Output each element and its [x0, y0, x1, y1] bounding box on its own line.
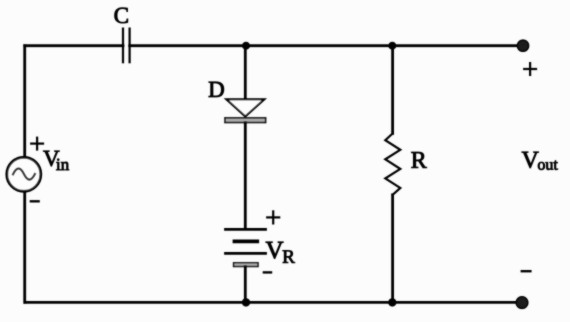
- capacitor C plates: [123, 29, 130, 63]
- label - polarity of output: [522, 270, 531, 272]
- output terminal positive: [517, 40, 528, 51]
- wire left branch through source: [23, 46, 26, 303]
- junction node bottom of diode branch: [242, 298, 250, 306]
- wire battery to bottom rail: [244, 267, 247, 303]
- battery VR plate short thick: [235, 239, 258, 243]
- label D of diode: [209, 82, 224, 97]
- junction node top of diode branch: [242, 42, 250, 50]
- battery VR plate long top: [226, 228, 266, 231]
- label - polarity of Vin: [31, 200, 39, 202]
- junction node bottom of resistor branch: [388, 298, 396, 306]
- label C of capacitor: [115, 8, 128, 23]
- AC source Vin: [7, 157, 41, 191]
- battery VR plate short bottom bar: [234, 263, 258, 267]
- wire diode to battery: [244, 123, 247, 229]
- junction node top of resistor branch: [388, 42, 396, 50]
- diode D anode triangle: [227, 99, 265, 116]
- wire diode branch upper: [244, 46, 247, 99]
- wire bottom rail from Vin to output terminal: [25, 301, 522, 304]
- resistor R zigzag: [385, 134, 400, 195]
- label VR of battery: [266, 242, 295, 263]
- label - polarity of battery VR: [264, 271, 271, 273]
- wire resistor branch lower: [391, 195, 394, 303]
- wire resistor branch upper: [391, 46, 394, 134]
- diode D cathode bar: [225, 118, 266, 123]
- label + polarity of output: [524, 63, 536, 75]
- label Vin of source: [43, 151, 69, 170]
- wire top rail from capacitor to output terminal: [130, 44, 523, 47]
- output terminal negative: [516, 297, 528, 309]
- wire top rail from Vin to capacitor: [25, 44, 123, 47]
- label + polarity of battery VR: [267, 211, 279, 223]
- battery VR plate long lower: [226, 252, 266, 255]
- label R of resistor: [411, 152, 426, 168]
- label + polarity of Vin: [31, 138, 43, 150]
- label Vout of output: [522, 152, 558, 170]
